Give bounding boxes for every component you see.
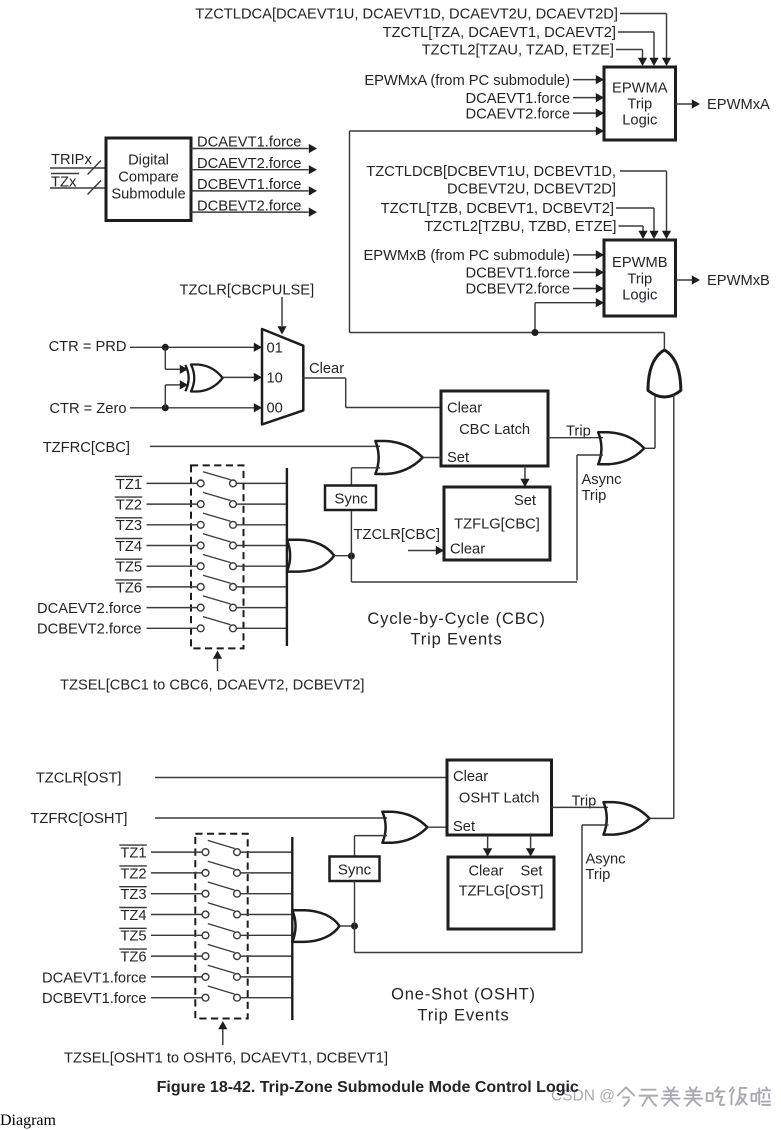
svg-text:Clear: Clear <box>447 401 482 417</box>
svg-text:TZ1: TZ1 <box>120 846 146 862</box>
svg-text:TZ5: TZ5 <box>116 560 142 576</box>
svg-text:Figure 18-42. Trip-Zone Submod: Figure 18-42. Trip-Zone Submodule Mode C… <box>157 1079 579 1096</box>
wire trip feedback into EPWMB <box>535 302 596 304</box>
wire TZCTLDCA to EPWMA top <box>620 13 667 15</box>
svg-text:Sync: Sync <box>334 490 368 507</box>
svg-text:TZFRC[OSHT]: TZFRC[OSHT] <box>30 811 127 827</box>
svg-text:Clear: Clear <box>468 864 503 880</box>
svg-text:Trip: Trip <box>586 867 611 883</box>
wire set or to OSHT latch <box>427 826 447 828</box>
input TZx (active low) <box>51 173 79 175</box>
arrowheads into EPWMA top <box>662 58 671 66</box>
svg-text:Logic: Logic <box>622 288 657 304</box>
wire TZSEL OSHT arrow <box>222 1029 224 1045</box>
wire async lower input OSHT <box>581 825 583 953</box>
svg-text:Set: Set <box>520 864 542 880</box>
switch OSHT TZ6 <box>119 948 147 950</box>
svg-text:EPWMxA: EPWMxA <box>707 97 770 113</box>
svg-text:DCAEVT1.force: DCAEVT1.force <box>466 91 570 107</box>
switch CBC TZ4 <box>115 538 143 540</box>
svg-text:Clear: Clear <box>453 769 488 785</box>
svg-text:01: 01 <box>267 341 283 357</box>
svg-text:Submodule: Submodule <box>111 187 185 203</box>
switch OSHT TZ2 <box>119 865 147 867</box>
junction CBC node <box>348 553 355 560</box>
svg-text:Digital: Digital <box>128 153 169 169</box>
svg-text:TZFLG[CBC]: TZFLG[CBC] <box>454 517 540 533</box>
selector box OSHT (dashed) <box>195 834 247 1019</box>
or gate OSHT events <box>292 910 339 942</box>
or gate CBC events <box>287 540 334 572</box>
svg-text:CTR = Zero: CTR = Zero <box>49 401 126 417</box>
svg-text:DCAEVT1.force: DCAEVT1.force <box>42 970 146 986</box>
svg-text:TZ1: TZ1 <box>116 477 142 493</box>
svg-text:DCBEVT2.force: DCBEVT2.force <box>466 282 570 298</box>
switch OSHT TZ4 <box>119 907 147 909</box>
svg-text:TZ3: TZ3 <box>120 887 146 903</box>
svg-text:OSHT Latch: OSHT Latch <box>459 791 540 807</box>
svg-text:Async: Async <box>586 852 626 868</box>
svg-text:Cycle-by-Cycle (CBC): Cycle-by-Cycle (CBC) <box>367 610 545 628</box>
block EPWMB Trip Logic <box>604 240 676 316</box>
wire OSHT node to sync <box>354 881 356 926</box>
svg-text:EPWMB: EPWMB <box>612 255 668 271</box>
arrowheads into EPWMB top <box>662 231 671 239</box>
block Sync CBC <box>325 486 376 511</box>
svg-text:TZSEL[OSHT1 to OSHT6, DCAEVT1,: TZSEL[OSHT1 to OSHT6, DCAEVT1, DCBEVT1] <box>64 1051 388 1067</box>
svg-text:TZ2: TZ2 <box>120 866 146 882</box>
wire OSHT async out <box>650 817 674 819</box>
switch CBC TZ6 <box>115 579 143 581</box>
svg-text:EPWMA: EPWMA <box>612 81 668 97</box>
wire CBC node to async <box>350 556 352 582</box>
svg-text:TZCLR[CBC]: TZCLR[CBC] <box>354 527 441 543</box>
wire combine out <box>663 333 665 350</box>
switch CBC TZ1 <box>115 475 143 477</box>
wire OSHT or out <box>340 925 355 927</box>
bus CBC or inputs <box>286 468 288 646</box>
block Digital Compare Submodule <box>106 138 191 221</box>
bus OSHT or inputs <box>291 837 293 1020</box>
wire set or to latch <box>423 457 441 459</box>
svg-text:Trip: Trip <box>627 97 652 113</box>
selector box CBC (dashed) <box>191 465 244 648</box>
switch CBC TZ5 <box>115 558 143 560</box>
svg-text:Trip: Trip <box>627 272 652 288</box>
or gate CBC set <box>375 441 422 474</box>
wire CBC node to sync <box>350 511 352 556</box>
svg-text:TZCTL[TZB, DCBEVT1, DCBEVT2]: TZCTL[TZB, DCBEVT1, DCBEVT2] <box>381 201 614 217</box>
svg-text:TZCLR[CBCPULSE]: TZCLR[CBCPULSE] <box>180 283 315 299</box>
svg-text:10: 10 <box>267 371 283 387</box>
or gate OSHT set <box>382 812 427 843</box>
svg-text:Async: Async <box>582 472 622 488</box>
wire trip feedback bus <box>349 131 351 333</box>
wire CBC or out <box>334 555 351 557</box>
svg-text:TZ4: TZ4 <box>120 908 146 924</box>
svg-text:00: 00 <box>267 401 283 417</box>
svg-text:TZCTL[TZA, DCAEVT1, DCAEVT2]: TZCTL[TZA, DCAEVT1, DCAEVT2] <box>383 25 616 41</box>
switch OSHT TZ1 <box>119 844 147 846</box>
svg-text:Trip Events: Trip Events <box>410 631 502 649</box>
svg-text:EPWMxB: EPWMxB <box>707 273 770 289</box>
svg-text:TZ2: TZ2 <box>116 498 142 514</box>
svg-text:Set: Set <box>447 450 469 466</box>
wire CBC latch to TZFLG set <box>524 466 526 479</box>
switch CBC TZ3 <box>115 517 143 519</box>
junction CTR=Zero node <box>162 404 169 411</box>
svg-text:DCAEVT2.force: DCAEVT2.force <box>466 106 570 122</box>
svg-text:Sync: Sync <box>338 861 372 878</box>
block Sync OSHT <box>330 857 380 882</box>
or gate CBC async trip <box>598 432 644 464</box>
xor gate CTR compare <box>185 365 188 391</box>
switch OSHT TZ3 <box>119 886 147 888</box>
output EPWMxB <box>676 279 693 281</box>
block TZFLG[CBC] <box>444 487 550 560</box>
junction OSHT node <box>351 923 358 930</box>
wire TZCLR[CBC] arrow <box>408 550 436 552</box>
wire xor to mux <box>223 376 254 378</box>
svg-text:TZCTL2[TZBU, TZBD, ETZE]: TZCTL2[TZBU, TZBD, ETZE] <box>424 219 616 235</box>
svg-text:Trip Events: Trip Events <box>417 1006 509 1024</box>
svg-text:Logic: Logic <box>622 113 657 129</box>
svg-text:CBC Latch: CBC Latch <box>459 422 530 438</box>
wire TZCLR[CBCPULSE] select <box>281 297 283 326</box>
svg-text:TZCTL2[TZAU, TZAD, ETZE]: TZCTL2[TZAU, TZAD, ETZE] <box>422 43 614 59</box>
svg-text:TZSEL[CBC1 to CBC6, DCAEVT2, D: TZSEL[CBC1 to CBC6, DCAEVT2, DCBEVT2] <box>60 678 364 694</box>
wire sync to OSHT set or <box>354 836 356 857</box>
svg-text:DCBEVT1.force: DCBEVT1.force <box>42 991 146 1007</box>
block OSHT Latch <box>447 760 552 835</box>
wire trip feedback into EPWMA <box>350 130 597 132</box>
svg-text:TZFRC[CBC]: TZFRC[CBC] <box>43 440 130 456</box>
output EPWMxA <box>676 103 693 105</box>
svg-text:DCBEVT2.force: DCBEVT2.force <box>37 622 141 638</box>
svg-text:Set: Set <box>453 819 475 835</box>
svg-text:DCBEVT2U, DCBEVT2D]: DCBEVT2U, DCBEVT2D] <box>447 182 616 198</box>
junction feedback node <box>532 329 539 336</box>
block CBC Latch <box>441 391 548 466</box>
svg-text:DCAEVT2.force: DCAEVT2.force <box>37 601 141 617</box>
svg-text:TZ4: TZ4 <box>116 539 142 555</box>
svg-text:Clear: Clear <box>450 542 485 558</box>
svg-text:EPWMxB (from PC submodule): EPWMxB (from PC submodule) <box>364 248 571 264</box>
switch CBC TZ2 <box>115 496 143 498</box>
svg-text:Set: Set <box>514 493 536 509</box>
wire OSHT latch to TZFLG set <box>530 836 532 849</box>
mux CBC clear select <box>262 329 303 424</box>
wire CBC async out <box>644 447 655 449</box>
wire OSHT node to async <box>354 926 356 953</box>
or gate trip combine (up) <box>648 350 681 397</box>
svg-text:TZCTLDCB[DCBEVT1U, DCBEVT1D,: TZCTLDCB[DCBEVT1U, DCBEVT1D, <box>366 164 616 180</box>
svg-text:TZ6: TZ6 <box>116 580 142 596</box>
wire OSHT riser <box>673 395 675 819</box>
svg-text:One-Shot (OSHT): One-Shot (OSHT) <box>391 985 536 1003</box>
wire OSHT latch to TZFLG clear <box>487 836 489 849</box>
or gate OSHT async trip <box>604 802 650 835</box>
wire async lower input CBC <box>576 455 578 581</box>
junction CTR=PRD node <box>162 344 169 351</box>
switch OSHT TZ5 <box>119 927 147 929</box>
wire sync to set or <box>350 468 352 510</box>
svg-text:TZCLR[OST]: TZCLR[OST] <box>36 771 122 787</box>
svg-text:Trip: Trip <box>582 488 607 504</box>
svg-text:Compare: Compare <box>118 170 178 186</box>
svg-text:TZCTLDCA[DCAEVT1U, DCAEVT1D, D: TZCTLDCA[DCAEVT1U, DCAEVT1D, DCAEVT2U, D… <box>195 7 618 23</box>
svg-text:TZ3: TZ3 <box>116 518 142 534</box>
block EPWMA Trip Logic <box>604 67 676 140</box>
block TZFLG[OST] <box>448 857 554 929</box>
svg-text:TRIPx: TRIPx <box>51 152 92 168</box>
svg-text:TZFLG[OST]: TZFLG[OST] <box>459 884 544 900</box>
wire TZSEL CBC arrow <box>217 658 219 671</box>
svg-text:CTR = PRD: CTR = PRD <box>49 339 127 355</box>
svg-text:TZ5: TZ5 <box>120 929 146 945</box>
svg-text:TZ6: TZ6 <box>120 950 146 966</box>
wire TZCTLDCB to EPWMB top <box>620 170 667 172</box>
svg-text:DCBEVT1.force: DCBEVT1.force <box>466 266 570 282</box>
svg-text:Clear: Clear <box>309 361 344 377</box>
svg-text:EPWMxA (from PC submodule): EPWMxA (from PC submodule) <box>364 73 570 89</box>
